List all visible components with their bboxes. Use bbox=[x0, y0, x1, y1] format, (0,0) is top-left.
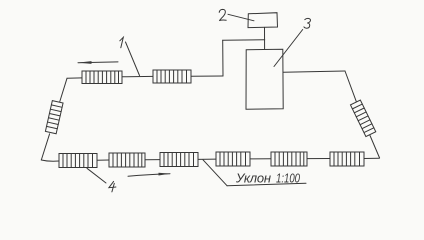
radiator B5 bbox=[271, 152, 307, 166]
radiator B6 bbox=[330, 152, 364, 166]
flow arrow (bottom, pointing right) bbox=[128, 173, 171, 177]
leader for label 2 bbox=[228, 14, 254, 20]
underline of slope label bbox=[227, 183, 306, 186]
wire riser tank to boiler bbox=[264, 27, 266, 49]
radiator L (left, tilted) bbox=[45, 101, 63, 134]
label 3 bbox=[304, 18, 311, 28]
wire diagonal to right radiator bbox=[345, 71, 356, 102]
wire diagonal up to left radiator bbox=[41, 134, 49, 160]
wire diagonal down to left radiator bbox=[60, 78, 67, 101]
wire riser up bbox=[222, 40, 224, 76]
radiator R (right, tilted) bbox=[350, 100, 375, 136]
radiator B1 bbox=[59, 154, 97, 168]
label 2 bbox=[219, 9, 226, 20]
boiler / main riser (3) bbox=[246, 49, 283, 109]
expansion tank (2) bbox=[248, 13, 278, 28]
leader for label 3 bbox=[274, 30, 303, 67]
radiator B4 bbox=[216, 152, 250, 166]
radiator T1 (top-left) bbox=[82, 71, 122, 84]
wire pipe B1-B2 bbox=[97, 159, 109, 161]
wire pipe B4-B5 bbox=[250, 158, 271, 160]
wire pipe to B6 bbox=[364, 157, 379, 159]
svg-text:Уклон: Уклон bbox=[235, 171, 271, 186]
leader for label 4 bbox=[87, 168, 106, 183]
radiator B2 bbox=[109, 153, 145, 167]
radiator T2 (top-right of top row) bbox=[153, 70, 191, 83]
wire boiler outlet right bbox=[283, 71, 345, 72]
label 1 bbox=[120, 37, 124, 48]
wire horizontal to tank riser bbox=[223, 39, 265, 42]
flow arrow (top, pointing left) bbox=[78, 61, 118, 64]
wire pipe B3-B4 bbox=[198, 158, 216, 160]
wire pipe B2-B3 bbox=[145, 159, 160, 161]
wire pipe left corner to B1 bbox=[41, 160, 59, 161]
wire pipe T1-T2 bbox=[122, 75, 153, 77]
wire pipe B5-B6 bbox=[307, 158, 330, 160]
leader of slope label bbox=[203, 160, 227, 186]
leader for label 1 bbox=[126, 42, 140, 76]
wire diagonal from right radiator bottom bbox=[370, 136, 380, 159]
wire pipe right of T2 bbox=[191, 75, 223, 77]
wire pipe left of T1 bbox=[67, 77, 82, 79]
label 4 bbox=[109, 181, 116, 192]
radiator B3 bbox=[160, 153, 198, 167]
